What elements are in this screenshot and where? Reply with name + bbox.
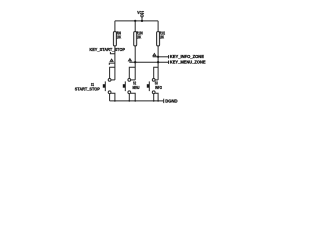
switch S1 bottom contact [108,91,111,94]
junction dot info/branch3 [157,56,159,58]
wire branch1 vertical [114,46,116,80]
switch S2 top contact [128,79,131,82]
offpage arrow branch1 [110,59,113,61]
svg-text:VCC: VCC [137,10,144,15]
switch S2 [123,67,140,102]
wire stub KEY_START_STOP [110,52,115,54]
svg-text:10K: 10K [117,35,122,40]
switch S3 actuator bar [148,81,150,91]
junction dot S3 bottom lead bus [153,100,155,102]
wire S1 bottom lead [109,94,111,101]
wire KEY_MENU_ZONE [129,61,168,63]
junction dot S1 bus [114,100,116,102]
wire R100 top lead [134,21,136,32]
offpage arrow branch2 [129,59,132,61]
wire ground bus [110,100,164,102]
wire S3 upper link [155,79,158,81]
switch S1 stem [103,84,106,88]
svg-text:INFO: INFO [155,85,162,90]
wire S2 bottom lead [128,94,130,101]
junction dot S3 link bus [157,100,159,102]
wire R99 top lead [114,21,116,32]
wire S1 lower link [111,93,115,101]
switch S1 actuator bar [104,81,106,91]
resistor R101 [157,31,166,46]
wire S2 upper pin pair [129,67,135,78]
junction dot S2 link bus [134,100,136,102]
svg-text:MENU: MENU [133,85,140,90]
offpage arrow branch3 [153,54,156,56]
wire stub branch1 lower [109,63,115,65]
switch S2 stem [123,84,126,88]
wire top VCC bus [115,20,158,22]
switch S2 bottom contact [128,91,131,94]
wire branch3 vertical [157,46,159,80]
power symbol VCC [137,10,144,21]
junction dot S2 bottom lead bus [128,100,130,102]
svg-text:DGND: DGND [165,99,177,104]
resistor R99 [113,31,121,46]
junction dot bus/VCC [141,20,143,22]
net label KEY_INFO_ZONE [169,54,205,59]
wire S1 upper link [111,79,115,81]
wire S3 lower link [155,93,158,101]
wire branch2 vertical [134,46,136,80]
svg-text:10K: 10K [137,35,142,40]
switch S1 top contact [108,79,111,82]
svg-text:KEY_MENU_ZONE: KEY_MENU_ZONE [170,59,206,64]
wire S3 bottom lead [153,94,155,101]
switch S3 bottom contact [152,91,155,94]
net label DGND [164,99,178,104]
switch S3 top contact [152,79,155,82]
wire KEY_INFO_ZONE [153,56,169,58]
junction dot bus/branch2 [134,20,136,22]
junction dot menu/branch2 [134,61,136,63]
wire S2 lower link [131,93,135,101]
svg-text:KEY_INFO_ZONE: KEY_INFO_ZONE [170,54,204,59]
resistor R100 [134,31,143,46]
switch S2 actuator bar [124,81,126,91]
svg-text:10K: 10K [160,35,165,40]
switch S3 [147,67,163,102]
wire R101 top lead [157,21,159,32]
svg-text:START_STOP: START_STOP [75,86,100,91]
wire S1 upper pin pair [110,67,115,78]
switch S3 stem [147,84,150,88]
junction dot menu/branch3 [157,61,159,63]
wire S2 upper link [131,79,135,81]
svg-text:KEY_START_STOP: KEY_START_STOP [89,47,125,52]
wire S3 upper pin pair [154,67,158,78]
net label KEY_MENU_ZONE [169,59,206,64]
switch S1 [75,67,116,102]
